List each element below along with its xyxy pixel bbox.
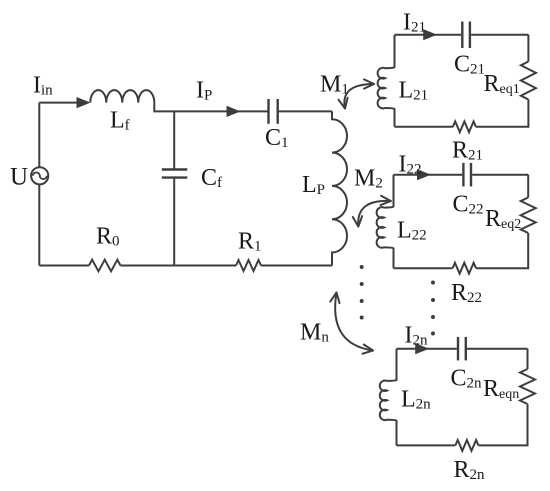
svg-text:U: U — [10, 163, 28, 190]
